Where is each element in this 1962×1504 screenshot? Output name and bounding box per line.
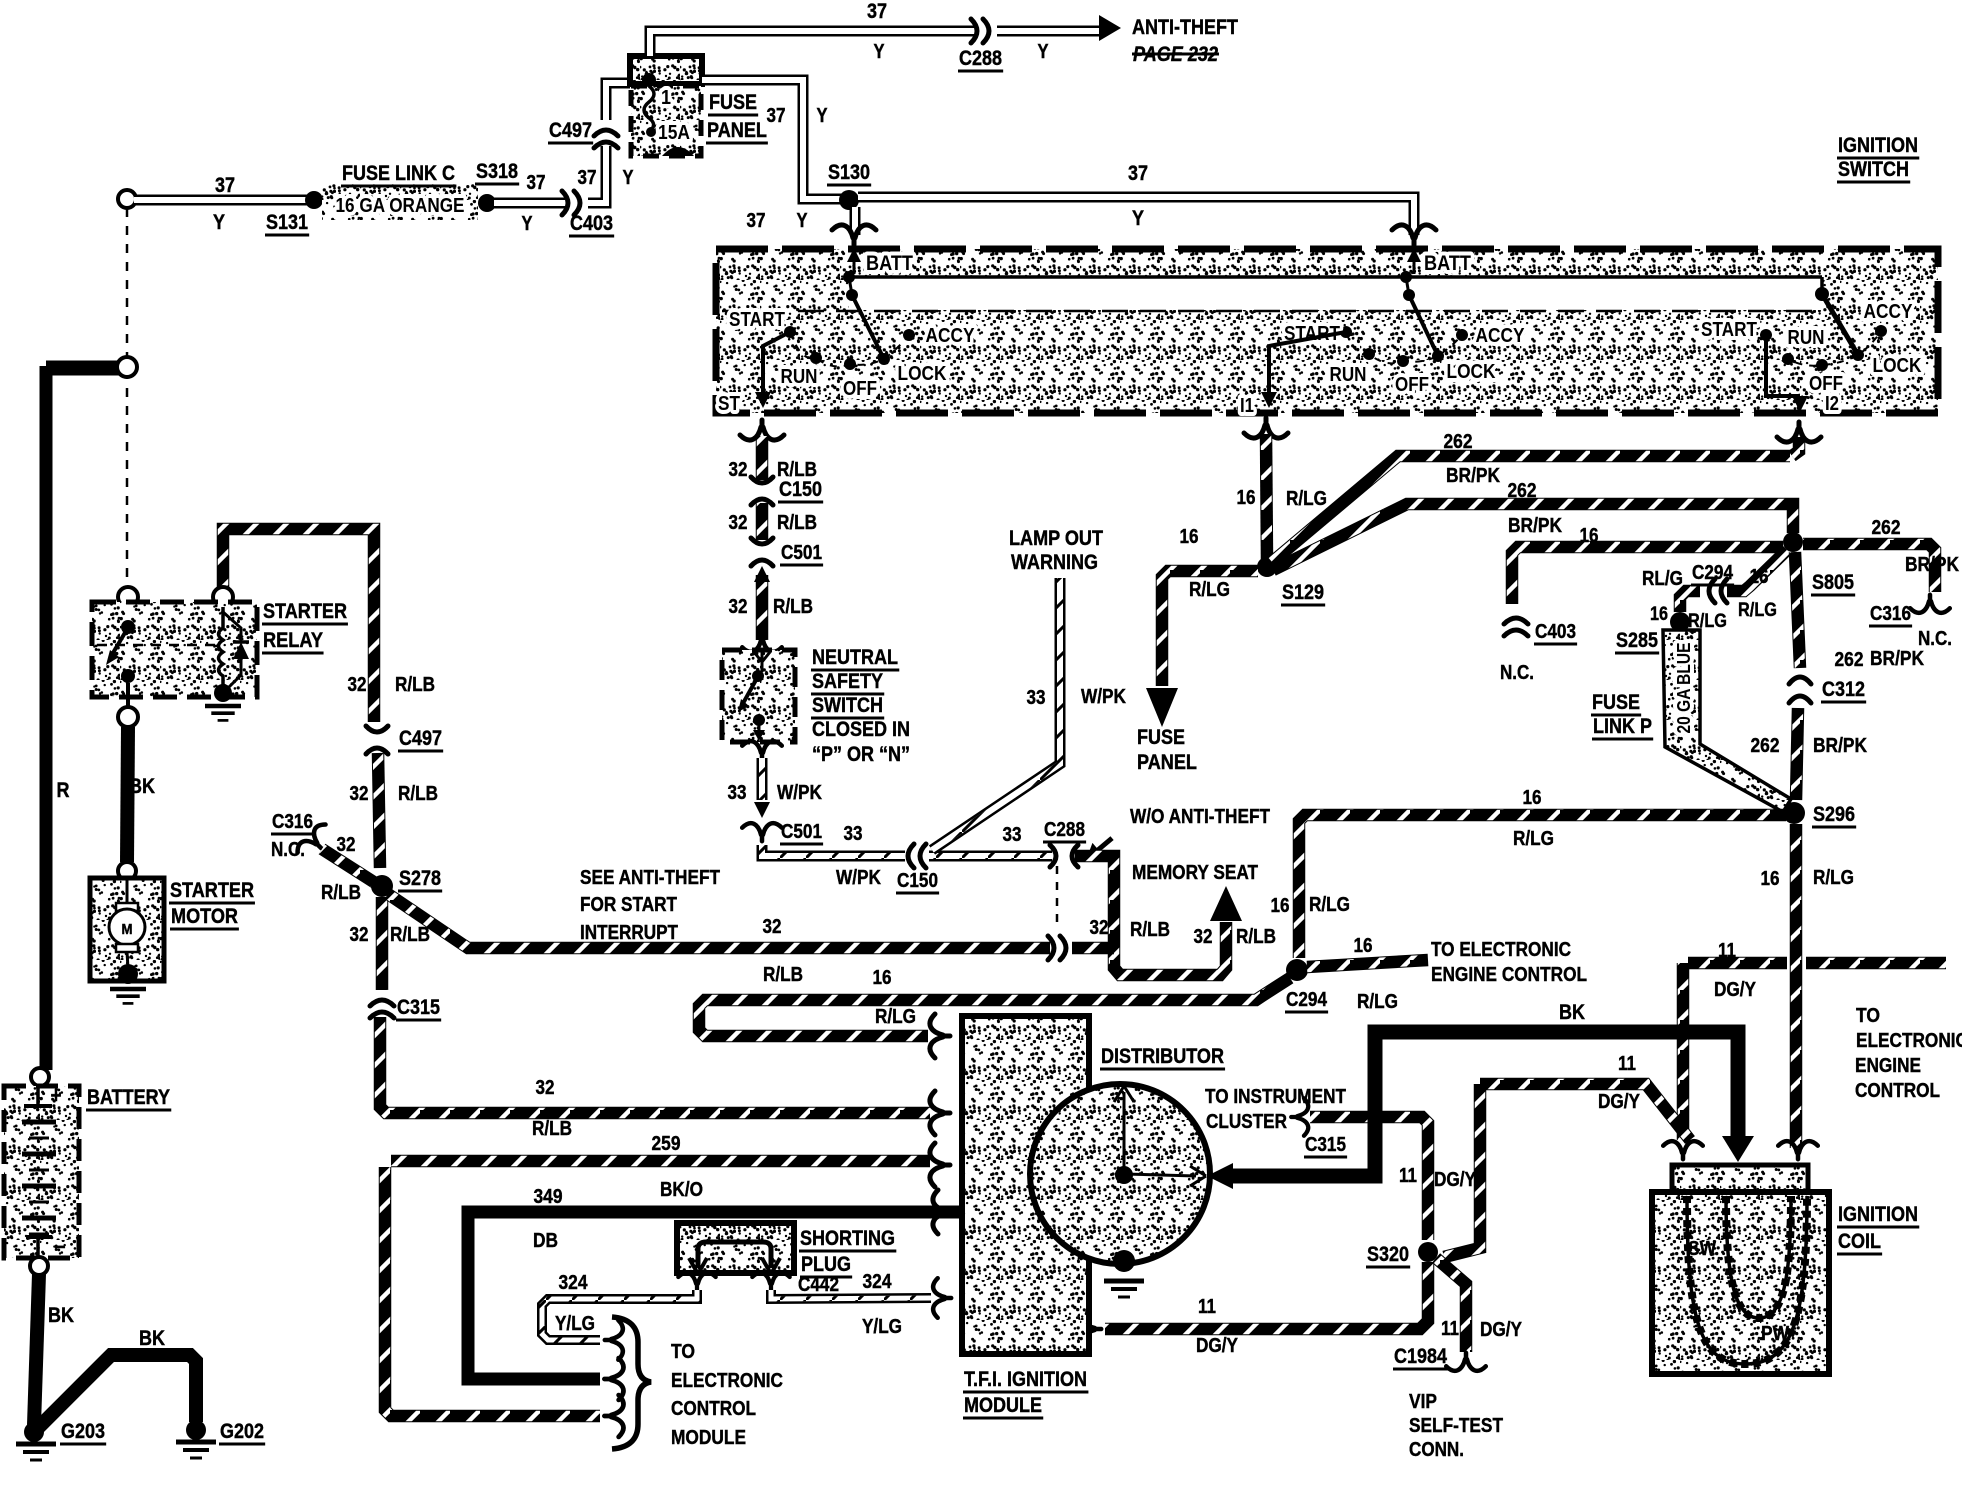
label 32 [1194,926,1213,948]
label 16 [1523,787,1542,809]
svg-text:C316: C316 [272,811,313,833]
label Y/LG [555,1313,595,1335]
connector C150 inline [908,844,926,868]
svg-text:ST: ST [718,393,740,415]
fuse panel bus box [630,56,702,84]
label PW [1761,1323,1789,1345]
svg-text:BR/PK: BR/PK [1905,554,1959,576]
svg-text:–: – [55,1233,66,1258]
connector C288 [971,19,989,43]
svg-text:T.F.I. IGNITION: T.F.I. IGNITION [964,1368,1087,1391]
BK arrow into coil [1722,1136,1754,1162]
svg-text:DG/Y: DG/Y [1480,1319,1523,1341]
svg-text:FOR START: FOR START [580,894,677,916]
svg-text:33: 33 [728,782,747,804]
wire 37 Y S130 down [850,207,861,235]
label STARTER [262,600,348,624]
ignition switch dashed line [722,310,1820,313]
svg-text:324: 324 [863,1271,893,1293]
svg-text:C501: C501 [781,821,822,843]
switch pivot dot [846,289,858,301]
svg-text:G202: G202 [220,1420,264,1443]
svg-text:C1984: C1984 [1394,1345,1447,1368]
label VIP [1409,1391,1437,1413]
fork to ECM Y/LG [605,1320,623,1360]
label LOCK [898,363,947,385]
label R/LG [1309,894,1350,916]
svg-text:DISTRIBUTOR: DISTRIBUTOR [1101,1045,1224,1068]
svg-text:32: 32 [350,924,369,946]
svg-text:S131: S131 [266,211,308,234]
svg-text:BR/PK: BR/PK [1870,648,1924,670]
wire 32 R/LB [376,897,389,990]
wire R cable top [46,361,120,376]
svg-text:20 GA BLUE: 20 GA BLUE [1674,643,1694,734]
svg-text:C497: C497 [549,119,592,142]
label SEE ANTI-THEFT [580,867,720,889]
splice S131 [305,191,323,209]
label C294 [1691,562,1734,585]
svg-text:PANEL: PANEL [1137,751,1197,774]
svg-text:32: 32 [337,834,356,856]
wire 32 R/LB [756,575,769,640]
label COIL [1837,1230,1882,1254]
splice S285 [1670,612,1690,632]
label 324 [863,1271,893,1293]
svg-text:33: 33 [1003,824,1022,846]
fork to ECM DB [604,1358,623,1400]
svg-text:MEMORY SEAT: MEMORY SEAT [1132,862,1258,884]
svg-text:C501: C501 [781,542,822,564]
label 32 [729,459,748,481]
svg-text:ENGINE CONTROL: ENGINE CONTROL [1431,964,1587,986]
ground G202 [176,1442,216,1458]
svg-text:C288: C288 [959,47,1002,70]
svg-text:324: 324 [559,1272,589,1294]
dashed bypass [1056,866,1059,929]
svg-text:16: 16 [873,967,892,989]
svg-text:262: 262 [1872,517,1901,539]
label SAFETY [811,670,884,694]
svg-text:TO: TO [671,1341,695,1363]
label 11 [1399,1165,1417,1187]
svg-text:32: 32 [350,783,369,805]
svg-text:37: 37 [1128,162,1148,185]
label BK [1559,1001,1585,1024]
label &#8211; [55,1233,66,1258]
label BK [48,1304,74,1327]
label R/LG [1286,488,1327,510]
svg-text:G203: G203 [61,1420,105,1443]
svg-text:C316: C316 [1870,603,1911,625]
svg-text:32: 32 [763,916,782,938]
svg-text:LAMP OUT: LAMP OUT [1009,527,1103,550]
label CONTROL [1855,1080,1940,1102]
label 32 [337,834,356,856]
label DG/Y [1196,1335,1239,1357]
label 324 [559,1272,589,1294]
wire 37 Y fuse panel to S130 [702,80,845,199]
label R/LB [763,964,803,986]
wire 16 R/LG [1790,824,1803,1148]
label C501 [780,542,823,565]
svg-text:“P” OR “N”: “P” OR “N” [812,743,910,766]
label 37 [867,0,887,23]
svg-text:C403: C403 [570,212,613,235]
label S278 [398,867,442,891]
corner dot [1815,287,1829,301]
label PANEL [706,119,768,143]
battery + terminal [31,1068,49,1086]
label 259 [652,1133,681,1155]
fork below NSS [742,741,782,759]
wire 262 BR/PK to C316 [1803,544,1935,592]
svg-text:Y: Y [1132,207,1144,230]
label ANTI-THEFT [1132,16,1238,39]
fuse panel arrow [1146,688,1178,727]
svg-text:W/PK: W/PK [836,867,881,889]
wire 16 R/LG long [1299,815,1786,958]
wire BK thick [1229,1032,1738,1176]
svg-text:RELAY: RELAY [263,629,323,652]
wire 11 DG/Y module to S320 [1105,1262,1428,1329]
svg-text:OFF: OFF [1809,373,1843,395]
switch arc [790,332,909,366]
label 32 [729,596,748,618]
label R/LG [875,1006,916,1028]
svg-text:R/LB: R/LB [390,924,430,946]
switch feed dot [1400,271,1412,283]
label 32 [350,783,369,805]
BATT terminal fork [832,225,876,245]
label R/LB [390,924,430,946]
svg-text:16: 16 [1580,525,1599,547]
module fork DG/Y [1083,1309,1101,1349]
svg-text:DG/Y: DG/Y [1598,1091,1641,1113]
relay output terminal [118,707,138,727]
label G202 [219,1420,265,1444]
svg-text:37: 37 [578,167,597,189]
label LINK P [1592,715,1653,739]
svg-text:R/LB: R/LB [532,1118,572,1140]
label SWITCH [811,694,884,718]
svg-text:M: M [122,921,133,938]
contact OFF [844,358,856,370]
connector C497 [366,726,388,754]
label 11 [1441,1318,1459,1340]
svg-text:FUSE: FUSE [1592,691,1640,714]
label N.C. [1500,662,1534,684]
svg-text:TO INSTRUMENT: TO INSTRUMENT [1205,1086,1346,1108]
wire 16 RL/G to C403 [1512,547,1783,604]
label 37 [1128,162,1148,185]
label ACCY [1476,325,1526,347]
wire 16 R/LG [1266,434,1267,560]
label C150 [778,478,823,502]
svg-text:Y: Y [522,213,534,235]
battery box [4,1086,79,1258]
svg-text:32: 32 [1090,917,1109,939]
wire 32 R/LB [756,436,769,480]
BK arrow into distributor [1207,1163,1233,1189]
label 16 [1650,604,1668,625]
label MOTOR [170,905,239,929]
connector C501 lower [742,823,782,841]
svg-text:C442: C442 [798,1274,839,1296]
label 32 [1090,917,1109,939]
label INTERRUPT [580,922,678,944]
svg-text:ELECTRONIC: ELECTRONIC [1856,1030,1962,1052]
svg-text:33: 33 [844,823,863,845]
svg-text:SWITCH: SWITCH [1838,158,1909,181]
svg-text:S320: S320 [1367,1243,1409,1266]
connector C497 [594,130,618,148]
svg-text:32: 32 [348,674,367,696]
svg-text:37: 37 [527,172,546,194]
svg-text:16: 16 [1523,787,1542,809]
fuse panel fuse area [631,86,701,156]
label 16 [873,967,892,989]
label M [122,921,133,938]
label DG/Y [1480,1319,1523,1341]
svg-text:R/LG: R/LG [1513,828,1554,850]
svg-text:ANTI-THEFT: ANTI-THEFT [1132,16,1238,39]
label 16 GA ORANGE [336,195,465,217]
label BK [129,775,155,798]
label ACCY [926,325,976,347]
label 33 [1003,824,1022,846]
label BATT [1424,252,1471,275]
svg-text:BK: BK [48,1304,74,1327]
svg-text:Y: Y [797,210,809,232]
label 16 [1580,525,1599,547]
svg-text:S278: S278 [399,867,441,890]
dashed link [126,208,129,588]
svg-text:262: 262 [1751,735,1780,757]
module fork R/LG [930,1014,950,1058]
module fork BK/O [930,1143,950,1187]
contact ACCY3 [1875,325,1887,337]
wire BK relay to motor [127,727,128,862]
label ACCY [1864,301,1914,323]
svg-text:CLOSED IN: CLOSED IN [812,718,910,741]
label RELAY [262,629,324,653]
svg-text:16: 16 [1237,487,1256,509]
svg-text:S318: S318 [476,160,518,183]
svg-text:C497: C497 [399,727,442,750]
label S130 [827,161,871,185]
svg-text:PW: PW [1761,1323,1789,1345]
svg-text:16: 16 [1354,935,1373,957]
label W/PK [777,782,822,804]
motor ground dot [118,964,138,984]
svg-text:SELF-TEST: SELF-TEST [1409,1415,1503,1437]
svg-text:16: 16 [1761,868,1780,890]
splice C294 [1286,959,1308,981]
label RUN [1330,364,1367,386]
switch pivot dot [1403,289,1415,301]
svg-text:IGNITION: IGNITION [1838,1203,1918,1226]
label CONTROL [671,1398,756,1420]
motor terminal [118,862,136,880]
wire 11 DG/Y stub left [1688,957,1787,970]
svg-text:C312: C312 [1822,678,1865,701]
svg-text:START: START [729,309,785,331]
fork to ECM 259 [604,1395,623,1437]
label I2 [1825,393,1839,415]
label I1 [1240,395,1254,417]
label BATT [866,252,913,275]
arrow to anti-theft [1099,15,1121,41]
label 16 [1237,487,1256,509]
svg-text:DG/Y: DG/Y [1714,979,1757,1001]
connector C288 inline [1050,845,1078,867]
label 33 [728,782,747,804]
neutral safety switch box [722,650,795,742]
svg-text:33: 33 [1027,687,1046,709]
fuse link P bar [1663,630,1791,812]
label R/LB [777,512,817,534]
label Y/LG [862,1316,902,1338]
fork C316 N.C. [1910,595,1950,613]
label C315 [396,996,441,1020]
label C288 [1043,819,1086,842]
label 37 [527,172,546,194]
label 16 [1180,526,1199,548]
label 262 [1444,431,1473,453]
svg-text:R/LB: R/LB [1236,926,1276,948]
distributor [1030,1084,1210,1272]
shorting plug box [677,1223,794,1273]
svg-text:R/LG: R/LG [1357,991,1398,1013]
svg-text:11: 11 [1718,940,1736,962]
ground G202 dot [186,1420,206,1440]
label Y [623,167,635,189]
label 349 [534,1186,563,1208]
label START [1284,323,1340,345]
splice S130 [839,190,859,210]
label 32 [350,924,369,946]
wire 11 DG/Y from C315 [1310,1117,1428,1240]
switch blade [1406,277,1438,356]
svg-text:NEUTRAL: NEUTRAL [812,646,898,669]
starter motor box [90,878,164,981]
svg-text:ACCY: ACCY [1476,325,1526,347]
svg-text:BATTERY: BATTERY [87,1086,170,1109]
wire 32 R/LB to C316 [322,849,380,886]
wire 32 R/LB start interrupt [388,894,1050,948]
label C501 [780,821,823,844]
svg-text:S285: S285 [1616,629,1658,652]
switch 3 arc [1766,331,1881,366]
svg-text:R/LB: R/LB [1130,919,1170,941]
svg-text:W/O ANTI-THEFT: W/O ANTI-THEFT [1130,806,1270,828]
label S805 [1811,571,1855,595]
up arrow [754,566,770,582]
wire 259 BK/O down [385,1167,600,1416]
label BR/PK [1508,515,1562,537]
label TO [671,1341,695,1363]
label Y [797,210,809,232]
label ST [718,393,740,415]
svg-text:32: 32 [729,596,748,618]
label R/LB [398,783,438,805]
label 11 [1718,940,1736,962]
label R/LB [321,882,361,904]
fork C316 N.C. [294,821,335,862]
wire 32 R/LB [756,503,769,540]
svg-text:R/LB: R/LB [773,596,813,618]
label R/LG [1813,867,1854,889]
label Y [522,213,534,235]
svg-text:Y: Y [817,105,829,127]
svg-text:16: 16 [1750,566,1769,588]
wire 11 DG/Y down [1677,963,1690,1140]
label PLUG [800,1253,852,1277]
distributor ground [1104,1281,1144,1297]
svg-text:37: 37 [767,105,786,127]
svg-text:START: START [1701,319,1757,341]
label SELF-TEST [1409,1415,1503,1437]
svg-text:BR/PK: BR/PK [1508,515,1562,537]
switch 3 blade [1822,294,1858,355]
label ENGINE CONTROL [1431,964,1587,986]
label C150 [896,870,939,893]
label + [51,1083,62,1108]
label OFF [843,378,877,400]
label C288 [958,47,1003,71]
label T.F.I. IGNITION [963,1368,1088,1392]
label C294 [1285,989,1328,1012]
wire 33 W/PK [757,758,768,800]
relay diode [223,612,249,688]
svg-text:TO ELECTRONIC: TO ELECTRONIC [1431,939,1571,961]
svg-text:262: 262 [1444,431,1473,453]
label RUN [1788,327,1825,349]
svg-text:R/LB: R/LB [763,964,803,986]
label G203 [60,1420,106,1444]
svg-text:11: 11 [1441,1318,1459,1340]
module fork Y/LG [933,1278,951,1318]
label R/LG [1738,600,1777,621]
label DG/Y [1714,979,1757,1001]
ignition switch feed line [849,275,1822,279]
svg-text:BK: BK [1559,1001,1585,1024]
wire 32 R/LB [378,753,380,868]
splice S805 [1783,532,1803,552]
label Y [1132,207,1144,230]
connector C312 [1789,677,1811,703]
wire BK battery to ground [34,1274,39,1425]
wire Y to arrow [997,26,1104,37]
label 33 [1027,687,1046,709]
svg-text:R/LG: R/LG [1189,579,1230,601]
svg-text:R/LG: R/LG [1286,488,1327,510]
label Y [874,41,886,63]
wire 33 W/PK [929,851,1052,862]
label DG/Y [1434,1169,1477,1191]
I2 fork [1777,422,1821,442]
svg-text:R/LG: R/LG [1738,600,1777,621]
contact OFF3 [1816,359,1828,371]
svg-text:S129: S129 [1282,581,1324,604]
switch feed dot [843,271,855,283]
relay coil ground dot [214,684,232,702]
svg-text:OFF: OFF [1395,374,1429,396]
label BR/PK [1813,735,1867,757]
svg-text:DG/Y: DG/Y [1434,1169,1477,1191]
svg-text:OFF: OFF [843,378,877,400]
